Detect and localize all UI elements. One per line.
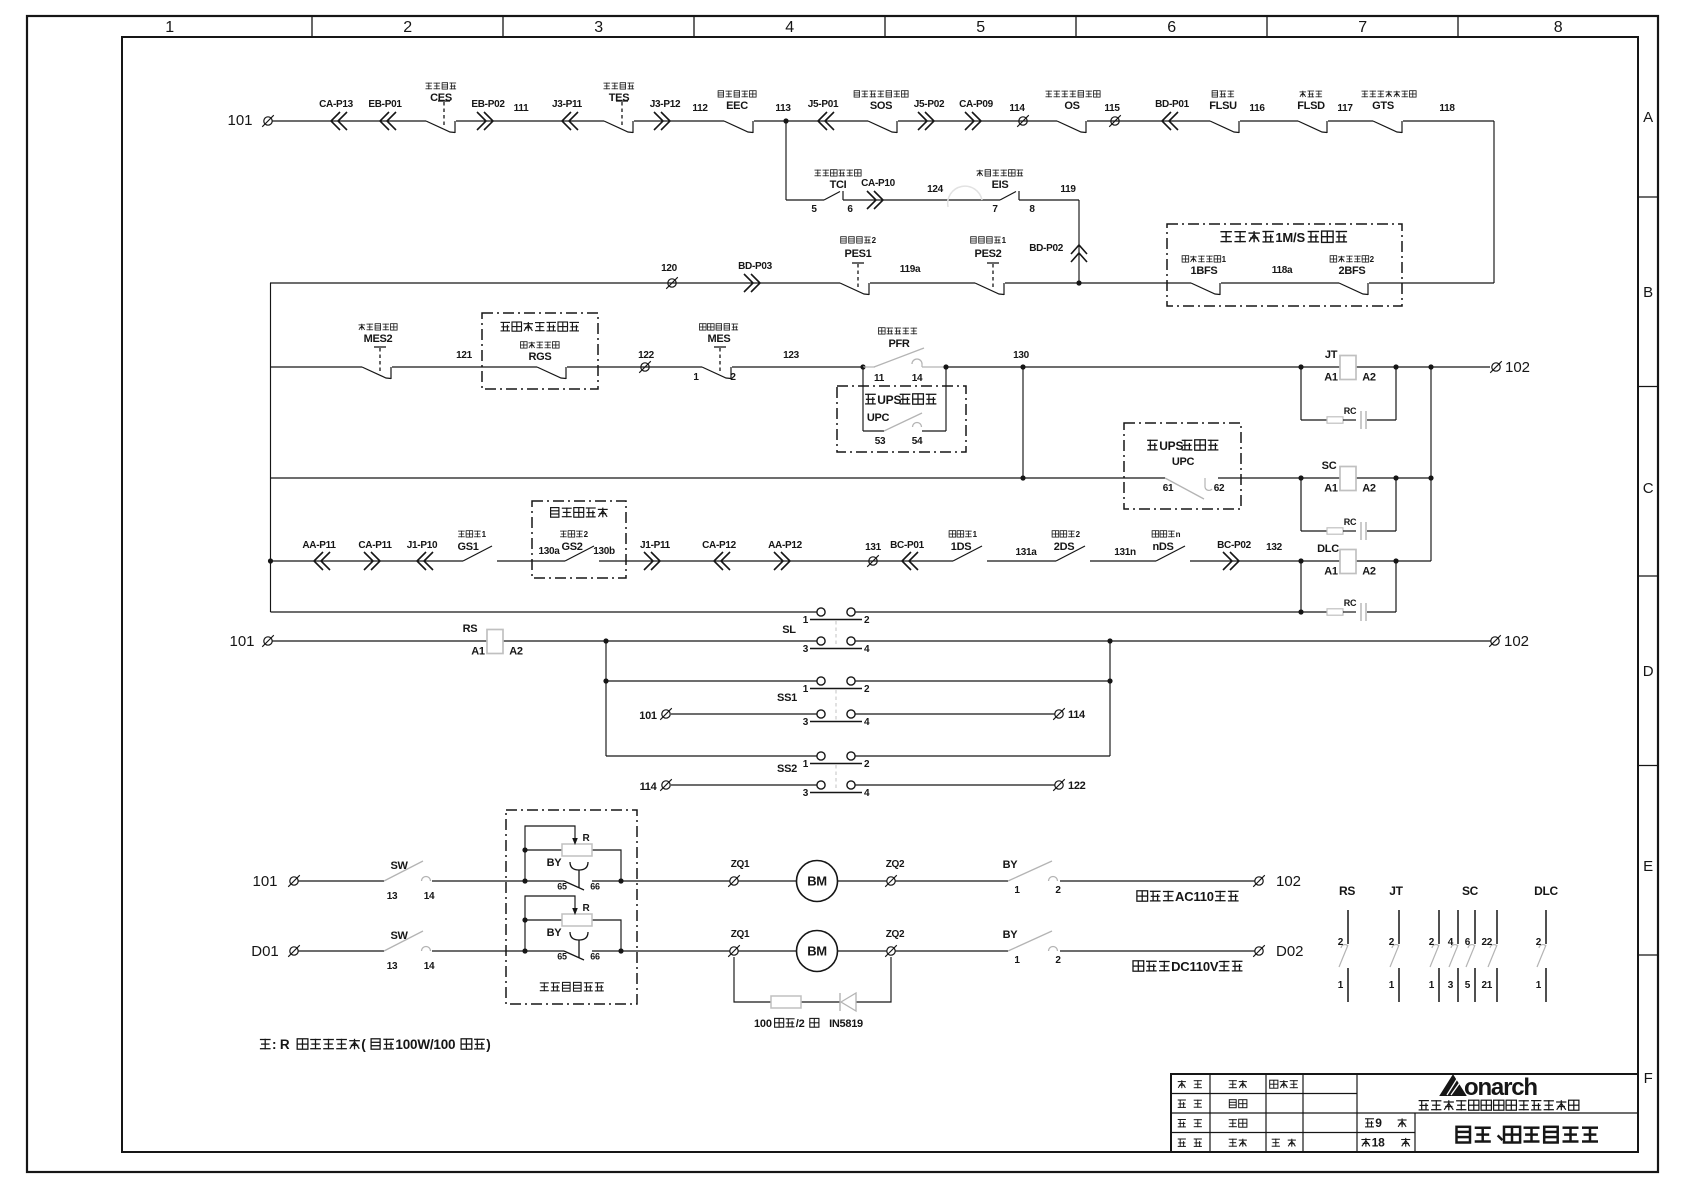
node 102 terminal: [1253, 873, 1301, 890]
wire row A right drop: [1493, 121, 1495, 283]
svg-text:2: 2: [872, 236, 877, 245]
svg-text:1: 1: [1536, 980, 1542, 991]
switch SW 101: [384, 860, 435, 902]
svg-text:120: 120: [661, 263, 678, 274]
node 101 terminal: [252, 873, 299, 890]
node 114 terminal (SS2): [640, 779, 672, 793]
link SL poles: [835, 621, 837, 647]
wire row C1 left part: [270, 366, 863, 368]
svg-text:AC110: AC110: [1175, 889, 1214, 904]
wire row C1 right part: [946, 366, 1490, 368]
node 120 terminal: [661, 263, 678, 289]
svg-text:18: 18: [1372, 1136, 1385, 1150]
box UPS option 2: [1124, 423, 1241, 509]
connector CA-P12: [702, 540, 737, 570]
svg-text:8: 8: [1554, 19, 1563, 36]
svg-text:DLC: DLC: [1534, 884, 1558, 898]
svg-text:GTS: GTS: [1372, 100, 1394, 112]
svg-text:ZQ1: ZQ1: [731, 929, 750, 940]
relay contact UPC 53-54: [875, 413, 923, 447]
junction R branch left 101: [522, 878, 527, 883]
svg-text:111: 111: [514, 103, 529, 114]
svg-text:onarch: onarch: [1464, 1074, 1537, 1101]
svg-text:BD-P01: BD-P01: [1155, 99, 1190, 110]
svg-text:65: 65: [557, 952, 567, 962]
svg-text:nDS: nDS: [1152, 541, 1173, 553]
contact SS1 3-4: [777, 692, 870, 728]
connector CA-P10: [861, 178, 896, 209]
title drawing name: [1457, 1127, 1599, 1143]
junction BD-P02 / row B: [1076, 280, 1081, 285]
svg-text:116: 116: [1249, 103, 1265, 114]
switch EIS emergency electric run: [977, 170, 1036, 215]
svg-text:8: 8: [1029, 204, 1035, 215]
logo monarch: [1441, 1074, 1537, 1101]
node 122 terminal: [638, 350, 655, 373]
svg-text:SS1: SS1: [777, 692, 797, 704]
svg-text:62: 62: [1214, 483, 1225, 494]
connector BD-P02 vertical: [1029, 243, 1087, 262]
svg-text:UPS: UPS: [1159, 439, 1183, 453]
svg-text:A: A: [1643, 109, 1653, 126]
node 130 label: [1013, 350, 1030, 361]
svg-text:BY: BY: [1003, 859, 1019, 871]
wire inspection branch: [786, 199, 1079, 201]
svg-text:PES2: PES2: [975, 248, 1002, 260]
svg-text:(: (: [361, 1037, 366, 1052]
node 101 terminal (row A left): [227, 112, 273, 129]
resistor R 101: [562, 833, 592, 856]
svg-text:101: 101: [227, 112, 252, 129]
svg-text:GS2: GS2: [561, 541, 582, 553]
title block std cells: [1270, 1080, 1298, 1147]
svg-text:JT: JT: [1389, 884, 1403, 898]
svg-text:UPS: UPS: [877, 393, 901, 407]
connector J1-P11: [640, 540, 671, 570]
connector BC-P01: [890, 540, 925, 570]
svg-text:BM: BM: [807, 874, 827, 889]
link SS1 poles: [835, 690, 837, 720]
junction JT left: [1298, 364, 1303, 369]
svg-text:114: 114: [640, 781, 658, 793]
svg-text:A1: A1: [471, 646, 485, 658]
svg-text:: R: : R: [272, 1037, 290, 1052]
connector CA-P09: [959, 99, 994, 130]
svg-text:BD-P02: BD-P02: [1029, 243, 1064, 254]
svg-text:SL: SL: [782, 624, 796, 636]
svg-text:C: C: [1643, 480, 1654, 497]
wire R branch 101: [525, 826, 621, 881]
relay contact ref JT: [1389, 884, 1404, 1002]
junction 130 bottom: [1020, 475, 1025, 480]
relay coil DLC: [1317, 543, 1376, 578]
svg-text:114: 114: [1068, 709, 1086, 721]
wire brake row D01: [298, 950, 1255, 952]
svg-text:JT: JT: [1325, 349, 1338, 361]
svg-text:AA-P12: AA-P12: [768, 540, 803, 551]
svg-text:IN5819: IN5819: [829, 1018, 863, 1030]
node 121 label: [456, 350, 473, 361]
svg-text:132: 132: [1266, 542, 1283, 553]
node 119a label: [900, 264, 921, 275]
svg-text:F: F: [1644, 1070, 1653, 1087]
svg-text:6: 6: [1167, 19, 1176, 36]
junction SC bus: [1428, 475, 1433, 480]
svg-text:9: 9: [1375, 1116, 1382, 1130]
svg-text:A1: A1: [1324, 372, 1338, 384]
svg-text:2: 2: [1389, 937, 1395, 948]
svg-text:2BFS: 2BFS: [1339, 265, 1366, 277]
svg-text:5: 5: [1465, 980, 1471, 991]
svg-text:DC110V: DC110V: [1171, 959, 1219, 974]
node 115 terminal: [1104, 103, 1120, 127]
svg-text:MES: MES: [708, 333, 731, 345]
resistor R D01: [562, 903, 592, 926]
svg-text:122: 122: [638, 350, 655, 361]
node 101 terminal (SS1): [639, 708, 672, 722]
junction PFR right: [943, 364, 948, 369]
junction bus top: [1428, 364, 1433, 369]
junction node 113: [783, 118, 788, 123]
resistor 100ohm: [771, 996, 801, 1008]
svg-text:FLSD: FLSD: [1297, 100, 1325, 112]
wire UPC53 bracket: [863, 367, 946, 431]
svg-text:CA-P11: CA-P11: [358, 540, 392, 551]
svg-text:J1-P11: J1-P11: [640, 540, 671, 551]
svg-text:2: 2: [864, 684, 870, 695]
switch FLSD down final limit: [1297, 91, 1327, 133]
wire R branch D01: [525, 896, 621, 951]
svg-text:11: 11: [874, 373, 885, 384]
svg-text:114: 114: [1009, 103, 1025, 114]
contact BY 65-66 101: [547, 857, 600, 892]
svg-text:2: 2: [1338, 937, 1344, 948]
svg-text:1: 1: [1429, 980, 1435, 991]
svg-text:TES: TES: [609, 92, 630, 104]
svg-text:65: 65: [557, 882, 567, 892]
svg-text:1: 1: [803, 759, 809, 770]
junction DLC left: [1298, 558, 1303, 563]
connector BD-P01: [1155, 99, 1190, 130]
svg-text:EIS: EIS: [992, 179, 1009, 191]
svg-text:2: 2: [730, 372, 736, 383]
wire SL upper line: [271, 611, 1302, 613]
svg-text:BC-P01: BC-P01: [890, 540, 925, 551]
junction SC right: [1393, 475, 1398, 480]
node 130b label: [593, 546, 615, 557]
svg-text:61: 61: [1163, 483, 1174, 494]
title block names: [1229, 1080, 1247, 1147]
svg-text:CA-P10: CA-P10: [861, 178, 896, 189]
svg-text:FLSU: FLSU: [1209, 100, 1237, 112]
svg-text:124: 124: [927, 184, 944, 195]
junction DLC right: [1393, 558, 1398, 563]
wire row D: [273, 640, 1492, 642]
svg-text:RC: RC: [1344, 406, 1357, 416]
svg-text:1: 1: [1002, 236, 1007, 245]
svg-text:2: 2: [1429, 937, 1435, 948]
wire SS2 114-122: [671, 784, 1055, 786]
junction door row left: [268, 558, 273, 563]
switch OS overspeed-governor switch: [1046, 91, 1101, 133]
node 112 label: [692, 103, 708, 114]
svg-text:131n: 131n: [1114, 547, 1136, 558]
svg-text:SOS: SOS: [870, 100, 892, 112]
node 101 terminal (row D): [229, 633, 273, 650]
switch RGS rope gripper switch: [521, 342, 567, 379]
svg-text:123: 123: [783, 350, 800, 361]
svg-text:13: 13: [387, 961, 398, 972]
svg-text:DLC: DLC: [1317, 543, 1339, 555]
svg-text:2: 2: [1076, 530, 1081, 539]
relay contact ref SC: [1429, 884, 1497, 1002]
box UPS option 1: [837, 386, 966, 452]
svg-text:D01: D01: [251, 943, 279, 960]
svg-text:UPC: UPC: [867, 412, 890, 424]
svg-text:4: 4: [864, 717, 870, 728]
junction SS1 left: [603, 678, 608, 683]
junction R tap D01: [522, 917, 527, 922]
svg-text:R: R: [583, 903, 591, 914]
svg-text:J3-P11: J3-P11: [552, 99, 583, 110]
node 131 terminal: [865, 542, 882, 567]
svg-text:BD-P03: BD-P03: [738, 261, 773, 272]
svg-text:53: 53: [875, 436, 886, 447]
node 118a label: [1272, 265, 1293, 276]
node 124 label: [927, 184, 944, 195]
svg-text:GS1: GS1: [457, 541, 478, 553]
svg-text:BY: BY: [547, 857, 563, 869]
note text: [260, 1037, 491, 1052]
svg-text:6: 6: [847, 204, 853, 215]
wire brake row 101: [298, 880, 1255, 882]
node 113 label: [775, 103, 791, 114]
connector CA-P13: [319, 99, 354, 130]
svg-text:54: 54: [912, 436, 923, 447]
svg-text:): ): [486, 1037, 490, 1052]
svg-text:66: 66: [590, 882, 600, 892]
relay coil JT: [1324, 349, 1376, 384]
diode IN5819: [840, 993, 856, 1011]
svg-text:RC: RC: [1344, 598, 1357, 608]
switch MES2 turning-wheel switch: [359, 324, 398, 379]
svg-text:ZQ2: ZQ2: [886, 929, 905, 940]
switch PES1 pit emergency stop: [840, 236, 877, 295]
svg-text:B: B: [1643, 284, 1653, 301]
svg-text:1: 1: [973, 530, 978, 539]
svg-text:D: D: [1643, 663, 1654, 680]
switch 1DS landing door lock 1: [949, 530, 982, 561]
svg-text:SS2: SS2: [777, 763, 797, 775]
svg-text:2: 2: [864, 615, 870, 626]
terminal ZQ1 101: [728, 859, 750, 887]
connector AA-P12: [768, 540, 803, 570]
connector J1-P10: [407, 540, 438, 570]
node 114 terminal: [1009, 103, 1028, 127]
svg-text:RS: RS: [1339, 884, 1355, 898]
svg-text:ZQ2: ZQ2: [886, 859, 905, 870]
svg-text:R: R: [583, 833, 591, 844]
wire row B left drop: [270, 283, 272, 612]
svg-text:3: 3: [803, 788, 809, 799]
junction SS1 right: [1107, 678, 1112, 683]
contact SL 1-2: [803, 608, 870, 626]
node 131a label: [1015, 547, 1037, 558]
node 130a label: [538, 546, 560, 557]
svg-text:102: 102: [1504, 633, 1529, 650]
svg-text:2: 2: [1055, 885, 1061, 896]
svg-text:n: n: [1176, 530, 1181, 539]
svg-text:CA-P09: CA-P09: [959, 99, 994, 110]
svg-text:CA-P13: CA-P13: [319, 99, 354, 110]
svg-text:SC: SC: [1462, 884, 1479, 898]
title block grid: [1171, 1074, 1638, 1152]
rc snubber DLC: [1301, 561, 1396, 621]
relay contact PFR phase relay: [863, 328, 946, 384]
terminal ZQ2 101: [885, 859, 905, 887]
svg-text:1: 1: [1014, 955, 1020, 966]
svg-text:OS: OS: [1064, 100, 1079, 112]
relay contact ref DLC: [1534, 884, 1558, 1002]
wire door lock row: [270, 560, 1340, 562]
node 132 label: [1266, 542, 1283, 553]
svg-text:RGS: RGS: [529, 351, 552, 363]
svg-text:2: 2: [1055, 955, 1061, 966]
switch FLSU up final limit: [1209, 91, 1239, 133]
switch 2DS landing door lock 2: [1052, 530, 1085, 561]
svg-text:22: 22: [1481, 937, 1492, 948]
title block row labels: [1178, 1080, 1202, 1147]
connector J5-P02: [914, 99, 945, 130]
svg-text:3: 3: [1448, 980, 1454, 991]
svg-text:102: 102: [1505, 359, 1530, 376]
svg-text:118: 118: [1439, 103, 1455, 114]
node 111 label: [514, 103, 529, 114]
wire right bus: [1430, 367, 1432, 561]
svg-text:EEC: EEC: [726, 100, 748, 112]
node 119 label: [1060, 184, 1076, 195]
svg-text:UPC: UPC: [1172, 456, 1195, 468]
svg-text:100W/100: 100W/100: [395, 1037, 455, 1052]
svg-text:14: 14: [424, 891, 435, 902]
svg-text:2: 2: [584, 530, 589, 539]
svg-text:118a: 118a: [1272, 265, 1293, 276]
node 102 terminal (row C1): [1490, 359, 1530, 376]
svg-text:1: 1: [803, 684, 809, 695]
svg-text:1BFS: 1BFS: [1191, 265, 1218, 277]
svg-text:112: 112: [692, 103, 708, 114]
svg-text:5: 5: [976, 19, 985, 36]
wire 119 drop: [1078, 200, 1080, 283]
wire 130 drop: [1022, 367, 1024, 478]
svg-text:4: 4: [785, 19, 794, 36]
svg-text:121: 121: [456, 350, 473, 361]
wire SC row: [270, 477, 1431, 479]
switch PES2 pit emergency stop: [971, 236, 1007, 295]
svg-text:130: 130: [1013, 350, 1030, 361]
svg-text:EB-P01: EB-P01: [368, 99, 402, 110]
node 114 terminal (SS1): [1053, 708, 1086, 721]
contact SS2 3-4: [777, 763, 870, 799]
box rope-gripper option: [482, 313, 598, 389]
node 122 terminal (SS2): [1053, 779, 1085, 792]
svg-text:RS: RS: [463, 623, 478, 635]
svg-text:A2: A2: [1362, 372, 1376, 384]
junction R branch left D01: [522, 948, 527, 953]
svg-text:J1-P10: J1-P10: [407, 540, 438, 551]
motor BM brake 101: [797, 861, 838, 902]
junction R tap 101: [522, 847, 527, 852]
svg-text:117: 117: [1337, 103, 1353, 114]
svg-text:E: E: [1643, 858, 1653, 875]
svg-text:100: 100: [754, 1018, 772, 1030]
svg-text:2DS: 2DS: [1054, 541, 1075, 553]
svg-text:14: 14: [424, 961, 435, 972]
connector CA-P11: [358, 540, 392, 570]
svg-text:SC: SC: [1322, 460, 1337, 472]
svg-text:J3-P12: J3-P12: [650, 99, 681, 110]
svg-text:5: 5: [811, 204, 817, 215]
svg-text:ZQ1: ZQ1: [731, 859, 750, 870]
svg-text:1: 1: [1389, 980, 1395, 991]
connector J5-P01: [808, 99, 839, 130]
junction SL right node: [1107, 638, 1112, 643]
svg-text:BY: BY: [1003, 929, 1019, 941]
label diode type: [829, 1018, 863, 1030]
wire row B: [270, 282, 1494, 284]
wire row A main safety line: [273, 120, 1495, 122]
junction JT right: [1393, 364, 1398, 369]
svg-text:D02: D02: [1276, 943, 1304, 960]
title block page no: [1361, 1116, 1410, 1150]
svg-text:CES: CES: [430, 92, 452, 104]
contact BY release 101: [1003, 859, 1062, 896]
svg-text:2: 2: [403, 19, 412, 36]
svg-text:3: 3: [594, 19, 603, 36]
contact BY release D01: [1003, 929, 1062, 966]
svg-text:A2: A2: [1362, 566, 1376, 578]
connector EB-P02: [471, 99, 505, 130]
wire SS1 101-114: [671, 713, 1055, 715]
svg-text:101: 101: [252, 873, 277, 890]
junction PFR left: [860, 364, 865, 369]
box forced-brake option: [506, 810, 637, 1004]
logo company name: [1419, 1100, 1579, 1110]
svg-text:130a: 130a: [538, 546, 560, 557]
junction DLC rc / SL line: [1298, 609, 1303, 614]
junction SC left: [1298, 475, 1303, 480]
svg-text:115: 115: [1104, 103, 1120, 114]
node D01 terminal: [251, 943, 300, 960]
svg-text:A2: A2: [509, 646, 523, 658]
contact SS2 1-2: [803, 752, 870, 770]
switch EEC safety-window switch: [718, 91, 756, 133]
terminal ZQ1 D01: [728, 929, 750, 957]
svg-text:113: 113: [775, 103, 791, 114]
svg-text:A1: A1: [1324, 483, 1338, 495]
svg-text:BM: BM: [807, 944, 827, 959]
node D02 terminal: [1253, 943, 1303, 960]
svg-text:4: 4: [864, 788, 870, 799]
switch GTS governor rope switch: [1362, 91, 1417, 133]
node 117 label: [1337, 103, 1353, 114]
contact BY 65-66 D01: [547, 927, 600, 962]
svg-text:14: 14: [912, 373, 923, 384]
svg-text:EB-P02: EB-P02: [471, 99, 505, 110]
svg-text:130b: 130b: [593, 546, 615, 557]
svg-text:131a: 131a: [1015, 547, 1037, 558]
svg-text:AA-P11: AA-P11: [302, 540, 336, 551]
